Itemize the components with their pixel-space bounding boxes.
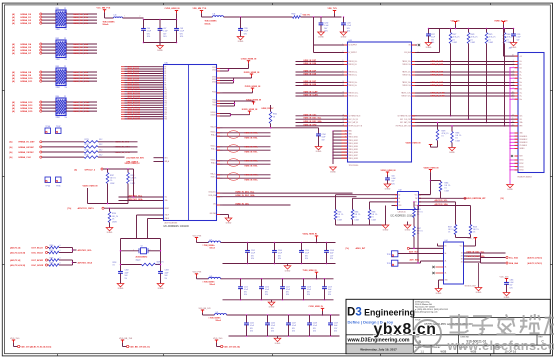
svg-text:[AUD,T2,14]: [AUD,T2,14] — [10, 259, 21, 262]
svg-text:P2: P2 — [165, 71, 167, 73]
svg-text:R295: R295 — [50, 250, 54, 252]
svg-text:ADV7611_BCL: ADV7611_BCL — [78, 249, 93, 252]
svg-text:[A]: [A] — [12, 22, 15, 25]
svg-text:DGND: DGND — [318, 37, 324, 39]
svg-text:ADV7611_RST#: ADV7611_RST# — [78, 207, 95, 210]
svg-text:R296: R296 — [112, 213, 116, 215]
svg-text:[A]: [A] — [10, 156, 13, 159]
svg-text:10K_1%: 10K_1% — [355, 214, 361, 216]
svg-text:CEC: CEC — [213, 204, 216, 206]
svg-text:TMDS_GND1: TMDS_GND1 — [349, 137, 358, 139]
svg-text:HDMI_IN_D0N: HDMI_IN_D0N — [431, 85, 444, 87]
svg-text:RN3: RN3 — [56, 66, 60, 68]
svg-text:HRMA_5V_DET: HRMA_5V_DET — [19, 141, 36, 144]
svg-text:10%: 10% — [180, 36, 184, 38]
svg-text:C206: C206 — [305, 250, 309, 252]
svg-text:FB40: FB40 — [292, 13, 296, 15]
svg-text:33.2: 33.2 — [99, 139, 102, 141]
svg-text:RESET: RESET — [165, 208, 170, 210]
svg-text:C283: C283 — [165, 270, 169, 272]
svg-text:SCL: SCL — [165, 197, 168, 199]
svg-text:[A]: [A] — [12, 16, 15, 19]
svg-text:[A]: [A] — [12, 19, 15, 22]
svg-text:CAT24C05: CAT24C05 — [398, 210, 406, 213]
svg-text:SN74LVC2G07: SN74LVC2G07 — [465, 286, 477, 288]
svg-text:C247: C247 — [292, 323, 296, 325]
svg-text:1/16W: 1/16W — [131, 183, 136, 185]
svg-text:3B: 3B — [461, 259, 463, 261]
svg-text:0.1uF: 0.1uF — [517, 37, 521, 39]
svg-text:10%: 10% — [292, 330, 296, 332]
svg-text:C282: C282 — [125, 270, 129, 272]
svg-text:DGT_BCKR: DGT_BCKR — [32, 260, 44, 262]
svg-text:TMDS_GND4: TMDS_GND4 — [349, 146, 358, 148]
svg-text:0: 0 — [301, 13, 302, 15]
svg-text:10%: 10% — [307, 294, 311, 296]
svg-text:L40: L40 — [114, 14, 117, 16]
svg-text:C365: C365 — [510, 280, 514, 282]
svg-text:VDD_BB_1V8 [T,6,11]: VDD_BB_1V8 [T,6,11] — [130, 346, 150, 348]
svg-text:10K_1%: 10K_1% — [110, 178, 116, 180]
svg-text:DGND: DGND — [341, 37, 347, 39]
svg-text:D3 Engineering: D3 Engineering — [347, 307, 415, 319]
svg-text:HRMA_D2: HRMA_D2 — [21, 19, 32, 22]
svg-text:TMDSX_CLK+: TMDSX_CLK+ — [349, 93, 359, 95]
svg-text:C204: C204 — [278, 250, 282, 252]
svg-text:P16: P16 — [165, 103, 168, 105]
svg-text:HRMA_D1: HRMA_D1 — [21, 16, 32, 19]
svg-text:HRMA_HSYNC: HRMA_HSYNC — [19, 146, 35, 149]
svg-text:R275: R275 — [85, 149, 89, 151]
svg-text:R378: R378 — [471, 34, 475, 36]
svg-text:DGC_BCLK: DGC_BCLK — [32, 252, 44, 254]
svg-text:TMDSX_CLK+: TMDSX_CLK+ — [401, 93, 411, 95]
svg-text:10K_1%: 10K_1% — [338, 214, 344, 216]
svg-text:10%: 10% — [265, 294, 269, 296]
svg-text:[A]: [A] — [12, 43, 15, 46]
svg-text:DGND: DGND — [449, 152, 455, 154]
svg-text:HRMA_D3: HRMA_D3 — [21, 22, 32, 25]
svg-text:P12: P12 — [165, 94, 168, 96]
svg-text:0.1uF: 0.1uF — [305, 253, 309, 255]
svg-text:HDMI_IN_DDC_SCL: HDMI_IN_DDC_SCL — [236, 191, 256, 193]
svg-text:R307: R307 — [448, 227, 452, 229]
svg-text:[A]: [A] — [12, 46, 15, 49]
svg-text:TMDSX_D1+: TMDSX_D1+ — [402, 72, 411, 74]
svg-text:TP46: TP46 — [45, 126, 50, 128]
svg-text:10%: 10% — [251, 258, 255, 260]
svg-text:HDMI_RX_D11+: HDMI_RX_D11+ — [73, 81, 90, 83]
svg-text:HDMI_IN_RXC+: HDMI_IN_RXC+ — [245, 174, 260, 176]
svg-text:HOTPLUG_DET_OUT: HOTPLUG_DET_OUT — [396, 126, 411, 128]
svg-text:10K_1%: 10K_1% — [112, 216, 119, 218]
svg-text:TMDSX_D2+: TMDSX_D2+ — [349, 61, 358, 63]
svg-text:ADIO_INT: ADIO_INT — [356, 247, 366, 250]
svg-text:MTG3: MTG3 — [520, 166, 524, 168]
svg-text:HRMA_D7: HRMA_D7 — [21, 52, 32, 55]
svg-text:SCL: SCL — [415, 202, 418, 204]
svg-text:TVDD_HDMI_IN: TVDD_HDMI_IN — [246, 100, 262, 102]
svg-text:R297: R297 — [50, 257, 54, 259]
svg-text:C249: C249 — [334, 323, 338, 325]
svg-text:VCC_MM_TVS: VCC_MM_TVS — [97, 7, 111, 9]
svg-text:TMDSX_D0+: TMDSX_D0+ — [402, 82, 411, 84]
svg-text:0.1uF: 0.1uF — [313, 325, 317, 327]
svg-text:10K_1%: 10K_1% — [456, 135, 462, 137]
svg-text:D0s: D0s — [520, 88, 523, 90]
svg-text:TP43: TP43 — [387, 263, 391, 265]
svg-text:HRMA_D14: HRMA_D14 — [21, 107, 34, 110]
svg-text:CN SHIELD: CN SHIELD — [520, 145, 527, 147]
svg-text:47.5K_1%: 47.5K_1% — [442, 133, 450, 135]
svg-text:0.1uF: 0.1uF — [292, 325, 296, 327]
svg-text:DGND: DGND — [504, 297, 510, 299]
svg-text:R298: R298 — [50, 262, 54, 264]
svg-text:HDMI_IN_D1P: HDMI_IN_D1P — [304, 71, 317, 73]
svg-text:4B: 4B — [461, 262, 463, 264]
svg-text:10uF: 10uF — [334, 325, 338, 327]
svg-text:HDMI19P-SM263: HDMI19P-SM263 — [518, 176, 532, 178]
svg-text:D0+: D0+ — [520, 82, 523, 84]
svg-text:TMDSX_D1+: TMDSX_D1+ — [349, 72, 358, 74]
svg-text:HOTPLUG_DET_IN: HOTPLUG_DET_IN — [349, 126, 362, 128]
svg-text:0.1uF: 0.1uF — [250, 325, 254, 327]
svg-text:GND: GND — [520, 133, 523, 135]
svg-text:HDMI_IN_D1N: HDMI_IN_D1N — [304, 74, 317, 76]
svg-text:HDMI_IN_DDC_SDA: HDMI_IN_DDC_SDA — [467, 255, 486, 258]
svg-text:www.d3engineering.com: www.d3engineering.com — [415, 311, 438, 314]
svg-text:DGND: DGND — [385, 189, 391, 191]
svg-text:R287: R287 — [110, 175, 114, 177]
svg-text:DGND: DGND — [275, 343, 281, 345]
svg-text:C245: C245 — [250, 323, 254, 325]
svg-text:HRMA_D8: HRMA_D8 — [21, 71, 32, 74]
svg-text:J36: J36 — [509, 48, 512, 50]
svg-text:CEC: CEC — [520, 116, 523, 118]
svg-text:DGND: DGND — [511, 47, 517, 49]
svg-text:HRMA_D4: HRMA_D4 — [21, 43, 32, 46]
svg-text:DVDDIO: DVDDIO — [210, 112, 216, 114]
svg-text:0.1uF: 0.1uF — [307, 289, 311, 291]
svg-text:DGND: DGND — [330, 172, 336, 174]
svg-text:R302: R302 — [273, 114, 277, 116]
svg-text:1/16W: 1/16W — [453, 42, 458, 44]
svg-text:0.1uF: 0.1uF — [278, 253, 282, 255]
svg-text:10%: 10% — [334, 330, 338, 332]
svg-text:1/16W: 1/16W — [338, 219, 343, 221]
svg-text:P17: P17 — [165, 105, 168, 107]
svg-text:DDSHIELD2: DDSHIELD2 — [520, 139, 528, 141]
svg-text:HDMI_IN_D0P: HDMI_IN_D0P — [431, 82, 444, 84]
svg-text:0: 0 — [60, 257, 61, 259]
svg-text:Wednesday, July 19, 2017: Wednesday, July 19, 2017 — [360, 347, 397, 351]
svg-text:[7b]: [7b] — [346, 248, 350, 250]
svg-text:DGND: DGND — [285, 270, 291, 272]
svg-text:P15: P15 — [165, 100, 168, 102]
svg-text:HDMI_IN_DDC_SCL: HDMI_IN_DDC_SCL — [304, 118, 323, 120]
svg-text:[A]: [A] — [10, 141, 13, 144]
svg-text:TP44: TP44 — [45, 185, 50, 187]
svg-text:[A2,6,T2,14,16,18]: [A2,6,T2,14,16,18] — [10, 264, 25, 267]
svg-text:C227: C227 — [431, 34, 435, 36]
svg-text:HDMI_IN_DDC_SDA: HDMI_IN_DDC_SDA — [236, 194, 256, 197]
svg-text:ADV7611_SCL: ADV7611_SCL — [129, 194, 143, 197]
svg-text:VDD_3V0 [T,6,14]: VDD_3V0 [T,6,14] — [224, 345, 241, 348]
svg-text:U44: U44 — [445, 240, 448, 242]
svg-text:HRMA_CLK: HRMA_CLK — [19, 156, 32, 159]
svg-text:10%: 10% — [147, 36, 151, 38]
svg-text:HDMI_RX_D23: HDMI_RX_D23 — [127, 119, 140, 121]
svg-text:10uF: 10uF — [330, 253, 334, 255]
svg-text:[A]: [A] — [12, 80, 15, 83]
svg-text:C248: C248 — [313, 323, 317, 325]
svg-text:TMDSX_CLK-: TMDSX_CLK- — [401, 96, 411, 98]
svg-text:HDMI_IN_RX0+: HDMI_IN_RX0+ — [245, 160, 260, 162]
svg-text:R305: R305 — [355, 212, 359, 214]
svg-text:[10] HDMI_RX_INT1: [10] HDMI_RX_INT1 — [127, 158, 145, 160]
svg-text:0: 0 — [60, 245, 61, 247]
svg-text:1/16W: 1/16W — [507, 42, 512, 44]
svg-text:VDDIO_HDMI_LV: VDDIO_HDMI_LV — [125, 163, 141, 165]
svg-text:HDMI_RX_5V: HDMI_RX_5V — [262, 108, 275, 110]
svg-text:HDMI_IN_CLKP: HDMI_IN_CLKP — [431, 93, 446, 95]
svg-text:1 TDK@100MHz: 1 TDK@100MHz — [209, 318, 221, 320]
svg-text:[A]: [A] — [12, 104, 15, 107]
svg-text:DGND: DGND — [436, 293, 442, 295]
svg-text:DGND: DGND — [476, 292, 482, 294]
svg-text:RN4: RN4 — [56, 96, 60, 98]
svg-text:TMDS_GND7: TMDS_GND7 — [349, 155, 358, 157]
svg-text:DVDDIO: DVDDIO — [210, 115, 216, 117]
svg-text:DGND: DGND — [269, 307, 275, 309]
svg-text:CK+: CK+ — [520, 93, 523, 95]
svg-text:[A]: [A] — [12, 110, 15, 113]
svg-text:R394: R394 — [456, 133, 460, 135]
svg-text:0: 0 — [60, 262, 61, 264]
svg-text:10%: 10% — [244, 294, 248, 296]
svg-text:TMDS_GND2: TMDS_GND2 — [349, 140, 358, 142]
svg-text:D0s: D0s — [520, 99, 523, 101]
svg-text:L48: L48 — [210, 276, 213, 278]
svg-text:ADV7611_SCL: ADV7611_SCL — [435, 199, 449, 202]
svg-text:33.2: 33.2 — [99, 154, 102, 156]
svg-text:10K_1%: 10K_1% — [473, 229, 479, 231]
svg-text:HDMI_RX_D8+: HDMI_RX_D8+ — [73, 72, 89, 74]
svg-text:R294: R294 — [50, 245, 54, 247]
svg-text:DVDD: DVDD — [212, 77, 216, 79]
svg-text:HDMI_IN_RX2-: HDMI_IN_RX2- — [245, 138, 259, 140]
svg-text:HDMI_RX_D5+: HDMI_RX_D5+ — [73, 47, 89, 49]
svg-text:HDMI_RX_D10+: HDMI_RX_D10+ — [73, 78, 90, 80]
svg-text:VDD_TVS: VDD_TVS — [328, 8, 338, 10]
svg-text:LV_SUPPLY: LV_SUPPLY — [349, 52, 357, 54]
svg-text:C246: C246 — [271, 323, 275, 325]
svg-text:C217: C217 — [286, 286, 290, 288]
svg-text:WP: WP — [415, 198, 417, 200]
svg-text:HDMI_IN_D1P: HDMI_IN_D1P — [431, 72, 444, 74]
svg-text:VSS: VSS — [399, 205, 402, 207]
svg-text:ADV_SDA: ADV_SDA — [410, 259, 420, 262]
svg-text:HDMI_IN_RXC-: HDMI_IN_RXC- — [245, 180, 259, 182]
svg-text:[A]: [A] — [12, 52, 15, 55]
svg-text:P5: P5 — [165, 78, 167, 80]
svg-text:HPA_A(INT2): HPA_A(INT2) — [127, 160, 139, 163]
svg-text:GPIOLV_2: GPIOLV_2 — [85, 169, 96, 171]
svg-text:RN2: RN2 — [56, 38, 60, 40]
svg-text:TMDSX_D0+: TMDSX_D0+ — [349, 82, 358, 84]
svg-text:[A]: [A] — [12, 107, 15, 110]
svg-text:P14: P14 — [165, 98, 168, 100]
svg-text:HDMI_IN_D2N: HDMI_IN_D2N — [304, 63, 317, 65]
svg-text:SDIO_EEPROM_WP: SDIO_EEPROM_WP — [467, 198, 487, 200]
svg-text:HDMI_IN_RX0-: HDMI_IN_RX0- — [245, 166, 259, 168]
svg-text:22: 22 — [64, 66, 66, 68]
svg-text:HRMA_D5: HRMA_D5 — [21, 46, 32, 49]
svg-text:D1+: D1+ — [520, 72, 523, 74]
svg-text:P9: P9 — [165, 87, 167, 89]
svg-text:CVDD_HDMI_IN: CVDD_HDMI_IN — [165, 8, 181, 10]
svg-text:1 TDK@100MHz: 1 TDK@100MHz — [203, 281, 215, 283]
svg-text:[A]: [A] — [12, 74, 15, 77]
svg-text:[A]: [A] — [10, 146, 13, 149]
svg-text:L41: L41 — [213, 13, 216, 15]
svg-text:HRMA_D12: HRMA_D12 — [21, 101, 34, 104]
svg-text:KSH: KSH — [520, 156, 523, 158]
svg-text:HDMI_IN_D0P: HDMI_IN_D0P — [304, 81, 317, 83]
svg-text:R377: R377 — [453, 34, 457, 36]
svg-text:HDMI_RX_D13+: HDMI_RX_D13+ — [73, 105, 90, 107]
svg-text:DDSHIELD1: DDSHIELD1 — [520, 136, 528, 138]
svg-text:DGND: DGND — [383, 230, 389, 232]
svg-text:1/16W: 1/16W — [445, 190, 450, 192]
svg-text:P4: P4 — [165, 75, 167, 77]
svg-text:C202: C202 — [251, 250, 255, 252]
svg-text:[7b]: [7b] — [68, 208, 72, 210]
svg-text:HDMI_RX_D12+: HDMI_RX_D12+ — [73, 102, 90, 104]
svg-text:P22: P22 — [165, 116, 168, 118]
svg-text:L49: L49 — [216, 312, 219, 314]
svg-text:P6: P6 — [165, 80, 167, 82]
svg-text:HDMI_RX_D2+: HDMI_RX_D2+ — [73, 20, 89, 22]
svg-text:DGND: DGND — [507, 189, 513, 191]
svg-text:562R_1%: 562R_1% — [157, 262, 165, 264]
svg-text:47pF: 47pF — [125, 272, 129, 274]
svg-text:DVDD: DVDD — [212, 82, 216, 84]
svg-text:HDMI_RX_D15+: HDMI_RX_D15+ — [73, 111, 90, 113]
svg-text:HDMI_IN_D0N: HDMI_IN_D0N — [304, 84, 317, 86]
svg-text:R308: R308 — [473, 227, 477, 229]
svg-text:47.5K_1%: 47.5K_1% — [453, 37, 461, 39]
svg-text:TMDS_GND3: TMDS_GND3 — [349, 143, 358, 145]
svg-text:HRMA_VSYNC: HRMA_VSYNC — [19, 151, 35, 154]
svg-text:10%: 10% — [163, 36, 167, 38]
svg-text:HDMI_IN_D2P: HDMI_IN_D2P — [431, 61, 444, 63]
svg-text:[A]: [A] — [10, 151, 13, 154]
svg-text:ADV7611_BCA: ADV7611_BCA — [78, 261, 93, 264]
svg-text:ybx8.cn: ybx8.cn — [374, 321, 437, 338]
svg-text:ADV7611_SDA: ADV7611_SDA — [129, 198, 143, 201]
svg-text:TMDS_GND5: TMDS_GND5 — [349, 149, 358, 151]
svg-text:HRMA_D9: HRMA_D9 — [21, 74, 32, 77]
svg-text:HDMI_IN_D2N: HDMI_IN_D2N — [431, 64, 444, 66]
svg-text:TMDSX_CLK-: TMDSX_CLK- — [349, 96, 359, 98]
svg-text:500mA: 500mA — [205, 22, 212, 25]
svg-text:C219: C219 — [328, 286, 332, 288]
svg-text:R276: R276 — [85, 154, 89, 156]
svg-text:C208: C208 — [330, 250, 334, 252]
svg-text:10K_1%: 10K_1% — [372, 214, 378, 216]
svg-text:TDK@100MHz: TDK@100MHz — [205, 21, 217, 23]
svg-text:0.1uF: 0.1uF — [510, 282, 514, 284]
svg-text:HDMI_IN_5V0: HDMI_IN_5V0 — [495, 20, 509, 22]
svg-text:P7: P7 — [165, 82, 167, 84]
svg-text:DGND: DGND — [157, 50, 163, 52]
svg-text:CE_REMOTE_IN: CE_REMOTE_IN — [349, 116, 361, 118]
svg-text:TMDSX_D2-: TMDSX_D2- — [402, 64, 411, 66]
svg-text:MTG4: MTG4 — [520, 170, 524, 172]
svg-text:DWN BY: DWN BY — [433, 347, 442, 349]
svg-text:2B: 2B — [461, 256, 463, 258]
svg-text:www.elecfans.com: www.elecfans.com — [447, 338, 554, 353]
svg-text:R273: R273 — [85, 139, 89, 141]
svg-text:CE_REMOTE_OUT: CE_REMOTE_OUT — [398, 116, 411, 118]
svg-text:1/16W: 1/16W — [110, 183, 115, 185]
svg-text:HDMI_IN_CLKN: HDMI_IN_CLKN — [431, 96, 446, 98]
svg-text:HDMI_IN_DDC_SDA: HDMI_IN_DDC_SDA — [304, 120, 323, 123]
svg-text:C226: C226 — [517, 34, 521, 36]
svg-text:R379: R379 — [489, 34, 493, 36]
svg-text:DVDD: DVDD — [212, 79, 216, 81]
svg-text:DGC_BCKR: DGC_BCKR — [32, 265, 44, 267]
svg-text:HRMA_D6: HRMA_D6 — [21, 49, 32, 52]
svg-text:P1: P1 — [165, 69, 167, 71]
svg-text:HPD: HPD — [520, 126, 523, 128]
svg-text:TP45: TP45 — [56, 185, 61, 187]
svg-text:DGT_BCLK: DGT_BCLK — [32, 247, 44, 249]
svg-text:U40: U40 — [165, 63, 168, 65]
svg-text:HDMI_RX_D14+: HDMI_RX_D14+ — [73, 107, 90, 110]
svg-text:DGND: DGND — [226, 223, 232, 225]
svg-text:TMDSX_D2-: TMDSX_D2- — [349, 64, 358, 66]
svg-text:TMDS_GND6: TMDS_GND6 — [349, 152, 358, 154]
svg-text:R380: R380 — [507, 34, 511, 36]
svg-text:C84: C84 — [392, 176, 395, 178]
svg-text:HRMA_D13: HRMA_D13 — [21, 104, 34, 107]
svg-text:1 TDK@100MHz: 1 TDK@100MHz — [203, 245, 215, 247]
svg-text:C234: C234 — [322, 134, 326, 136]
svg-text:TMDSX_D1-: TMDSX_D1- — [402, 75, 411, 77]
svg-text:HDMI_RX_D6+: HDMI_RX_D6+ — [73, 50, 89, 52]
svg-text:CVDD: CVDD — [212, 67, 216, 69]
svg-text:MTG1: MTG1 — [520, 160, 524, 162]
svg-text:GND: GND — [445, 280, 448, 282]
svg-text:10%: 10% — [286, 294, 290, 296]
svg-text:TP47: TP47 — [56, 126, 61, 128]
svg-text:28.63636MHz: 28.63636MHz — [136, 257, 148, 259]
svg-text:U42: U42 — [399, 190, 402, 192]
svg-text:[A]: [A] — [12, 71, 15, 74]
svg-text:D2s: D2s — [520, 67, 523, 69]
svg-text:22: 22 — [64, 38, 66, 40]
svg-text:HDMI_IN_D1N: HDMI_IN_D1N — [431, 75, 444, 77]
svg-text:10%: 10% — [347, 30, 351, 32]
svg-text:HDMI_IN_CEC: HDMI_IN_CEC — [236, 203, 250, 205]
svg-text:HDMI_IN_DDC_SCL: HDMI_IN_DDC_SCL — [467, 251, 486, 253]
svg-text:R274: R274 — [85, 144, 89, 146]
svg-text:I2C ADDRESS: 1010xxx: I2C ADDRESS: 1010xxx — [391, 215, 417, 218]
svg-text:TVDD: TVDD — [212, 102, 216, 104]
svg-text:47pF: 47pF — [165, 272, 169, 274]
